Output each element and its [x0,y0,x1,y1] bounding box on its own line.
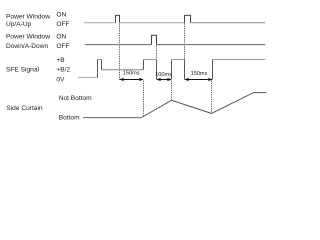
arrow 150ms first span [120,78,144,81]
pulse row1 first [116,15,120,22]
wire side curtain bottom level [83,117,142,119]
svg-text:150ms: 150ms [123,71,140,77]
wire SFE final +B top [213,59,266,61]
dashed line at peak x=171.4 [171,81,173,101]
dashed line at valley x=212.4 [211,81,213,114]
svg-text:Down/A-Down: Down/A-Down [6,43,48,50]
dashed line at row1 pulse2 rise x=184.7 [184,23,186,59]
dashed line at first pulse fall x=119.4 [119,24,121,82]
wire row1 OFF baseline left [84,22,116,24]
dashed line at SFE rise x=143.2 [143,81,145,117]
arrow 150ms second span [185,78,213,81]
wire SFE final rise edge [212,60,214,80]
svg-text:0V: 0V [56,76,65,83]
pulse row2 [152,35,157,44]
svg-text:Up/A-Up: Up/A-Up [6,21,32,28]
label Power Window Up/A-Up [6,13,50,28]
wire SFE second top [144,59,157,61]
svg-text:SFE Signal: SFE Signal [6,66,40,73]
pulse row1 second [185,15,191,22]
svg-text:ON: ON [56,12,66,19]
svg-text:Bottom: Bottom [59,115,80,122]
wire SFE second fall edge [156,60,158,80]
svg-text:100ms: 100ms [155,72,172,78]
wire SFE third top [172,59,185,61]
svg-text:+B: +B [56,57,65,64]
wire row1 OFF baseline right [191,22,266,24]
svg-text:Power Window: Power Window [6,13,50,20]
svg-text:OFF: OFF [56,43,69,50]
wire row2 OFF baseline right [157,44,266,46]
label Power Window Down/A-Down [6,34,50,50]
wire side curtain ramp [142,93,267,118]
wire SFE third fall edge [184,60,186,80]
dashed line at row2 pulse fall x=156 [156,45,158,59]
svg-text:Power Window: Power Window [6,34,50,41]
svg-text:Not Bottom: Not Bottom [59,95,92,102]
svg-text:OFF: OFF [56,21,69,28]
wire SFE +B/2 hold segment [102,69,144,71]
wire SFE second rise edge [143,60,145,70]
wire SFE first pulse falling edge [101,60,103,70]
wire row1 OFF baseline middle [120,22,185,24]
wire row2 OFF baseline left [85,44,152,46]
wire SFE third rise edge [171,60,173,80]
wire SFE first pulse top [97,59,102,61]
svg-text:+B/2: +B/2 [56,66,70,73]
svg-text:ON: ON [56,34,66,41]
svg-text:150ms: 150ms [191,71,208,77]
wire SFE 0V segment [78,76,98,78]
arrow 100ms span [157,78,172,81]
svg-text:Side Curtain: Side Curtain [6,105,43,112]
wire SFE first pulse rising edge [97,60,99,78]
